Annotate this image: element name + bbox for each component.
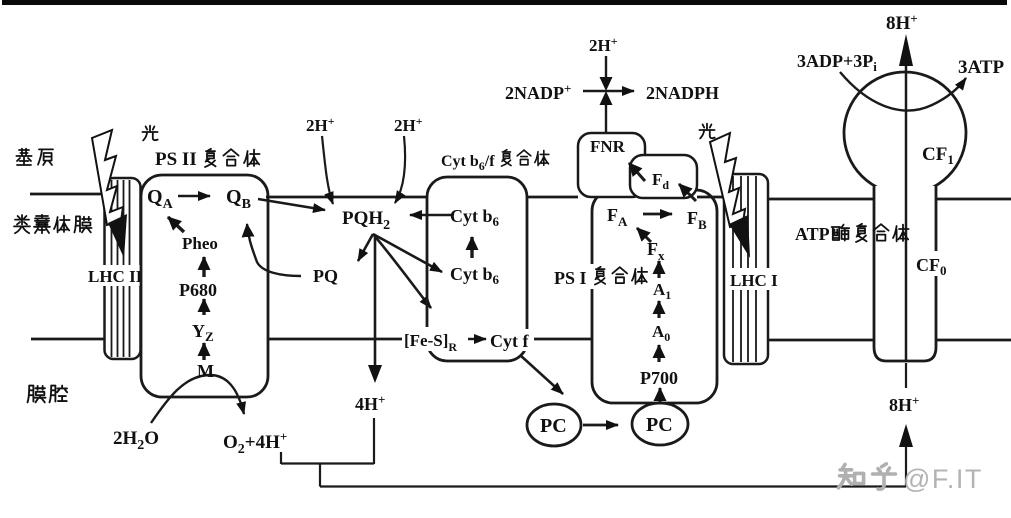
svg-text:2H2O: 2H2O — [113, 428, 159, 453]
svg-text:PC: PC — [540, 415, 567, 437]
svg-text:2NADP+: 2NADP+ — [505, 81, 571, 103]
svg-text:ATP: ATP — [795, 224, 830, 244]
svg-text:3ATP: 3ATP — [958, 57, 1004, 78]
svg-text:Fx: Fx — [647, 239, 665, 263]
svg-text:8H+: 8H+ — [886, 11, 918, 34]
svg-text:LHC II: LHC II — [88, 267, 143, 286]
svg-text:YZ: YZ — [192, 321, 214, 344]
svg-text:M: M — [197, 361, 214, 381]
svg-text:2NADPH: 2NADPH — [646, 83, 719, 103]
svg-text:2H+: 2H+ — [394, 114, 423, 135]
svg-text:Cyt f: Cyt f — [490, 331, 529, 351]
svg-text:4H+: 4H+ — [355, 392, 385, 414]
svg-text:QA: QA — [147, 186, 174, 212]
svg-text:PS I: PS I — [554, 268, 587, 288]
svg-text:LHC I: LHC I — [730, 271, 778, 290]
svg-text:8H+: 8H+ — [889, 393, 919, 415]
svg-text:A1: A1 — [653, 280, 671, 302]
svg-text:Cyt b6: Cyt b6 — [450, 264, 500, 287]
svg-text:A0: A0 — [652, 322, 670, 344]
svg-text:FNR: FNR — [590, 137, 626, 156]
svg-text:Pheo: Pheo — [182, 234, 218, 253]
svg-text:P700: P700 — [640, 368, 678, 388]
svg-text:@F.IT: @F.IT — [903, 464, 983, 494]
svg-text:FB: FB — [687, 208, 707, 232]
svg-text:PS II: PS II — [155, 149, 197, 170]
svg-text:2H+: 2H+ — [306, 114, 335, 135]
svg-text:FA: FA — [607, 205, 628, 229]
svg-text:PQ: PQ — [313, 266, 338, 286]
svg-text:QB: QB — [226, 186, 251, 212]
svg-text:PQH2: PQH2 — [342, 208, 390, 233]
svg-text:PC: PC — [646, 414, 673, 436]
svg-text:P680: P680 — [179, 280, 217, 300]
svg-text:2H+: 2H+ — [589, 34, 618, 55]
svg-text:Cyt b6/f: Cyt b6/f — [441, 153, 495, 173]
svg-text:O2+4H+: O2+4H+ — [223, 429, 287, 457]
svg-text:3ADP+3Pi: 3ADP+3Pi — [797, 51, 877, 74]
svg-text:Cyt b6: Cyt b6 — [450, 206, 500, 229]
